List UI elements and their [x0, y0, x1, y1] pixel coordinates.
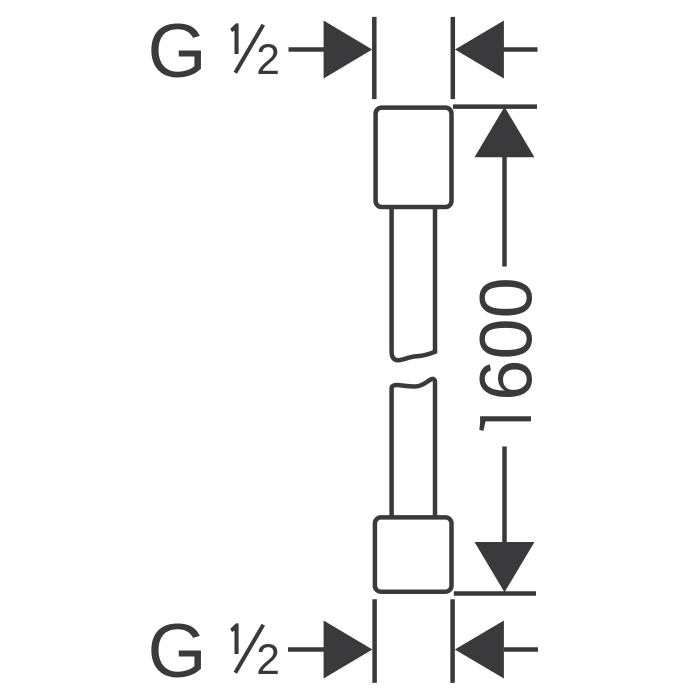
- svg-text:G: G: [148, 9, 207, 94]
- svg-text:600: 600: [465, 277, 548, 400]
- svg-text:2: 2: [256, 37, 280, 84]
- svg-text:G: G: [148, 609, 207, 694]
- svg-text:2: 2: [256, 637, 280, 684]
